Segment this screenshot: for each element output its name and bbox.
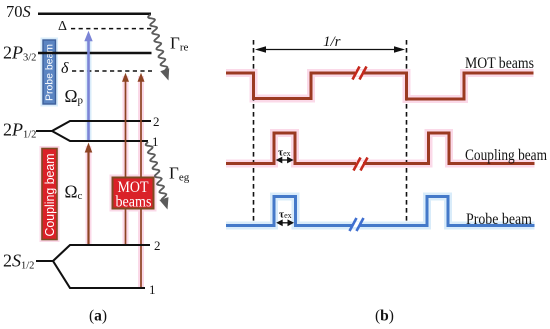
level fork 2P1/2 [36, 121, 151, 141]
svg-text:70S: 70S [6, 2, 31, 21]
probe arrow Omega_p [84, 31, 92, 141]
svg-text:(a): (a) [89, 308, 107, 325]
MOT beams trace [226, 73, 534, 99]
decay wavy arrow Gamma_re [148, 15, 169, 81]
interval arrow 1/r [255, 46, 405, 53]
break mark on MOT trace [353, 67, 367, 80]
svg-text:1/r: 1/r [323, 34, 341, 50]
dashed line Delta [71, 28, 152, 30]
level line 2P3/2 [38, 52, 152, 54]
MOT arrow right (from 2S1/2 F=1) [138, 73, 145, 288]
MOT arrow left (from 2S1/2 F=2) [122, 73, 129, 245]
probe beam box [43, 40, 56, 104]
svg-text:beams: beams [116, 194, 152, 211]
svg-text:τex: τex [278, 147, 291, 159]
probe beam trace [226, 197, 535, 226]
svg-text:1: 1 [149, 282, 156, 297]
dashed line delta [72, 70, 152, 72]
coupling beam trace [226, 133, 535, 164]
width arrow tau_ex coupling [276, 157, 294, 164]
svg-text:Probe beam: Probe beam [466, 211, 532, 228]
dashed timeline marker left [253, 40, 255, 226]
width arrow tau_ex probe [276, 219, 294, 226]
coupling arrow Omega_c [85, 143, 93, 246]
level line 70S [38, 13, 151, 16]
svg-text:2: 2 [153, 114, 160, 129]
break mark on probe trace [350, 218, 364, 231]
svg-text:δ: δ [61, 60, 69, 77]
coupling beam box [42, 149, 57, 240]
svg-text:Coupling beam: Coupling beam [43, 154, 57, 237]
svg-text:2: 2 [154, 238, 161, 253]
decay wavy arrow Gamma_eg [146, 142, 169, 210]
svg-text:MOT beams: MOT beams [465, 55, 534, 72]
svg-text:Δ: Δ [58, 19, 67, 34]
svg-text:Coupling beam: Coupling beam [465, 147, 547, 164]
MOT beams box [113, 178, 154, 211]
dashed timeline marker right [406, 40, 408, 226]
level fork 2S1/2 [36, 245, 150, 288]
break mark on coupling trace [354, 158, 368, 171]
svg-text:(b): (b) [375, 308, 394, 325]
svg-text:τex: τex [279, 209, 292, 221]
